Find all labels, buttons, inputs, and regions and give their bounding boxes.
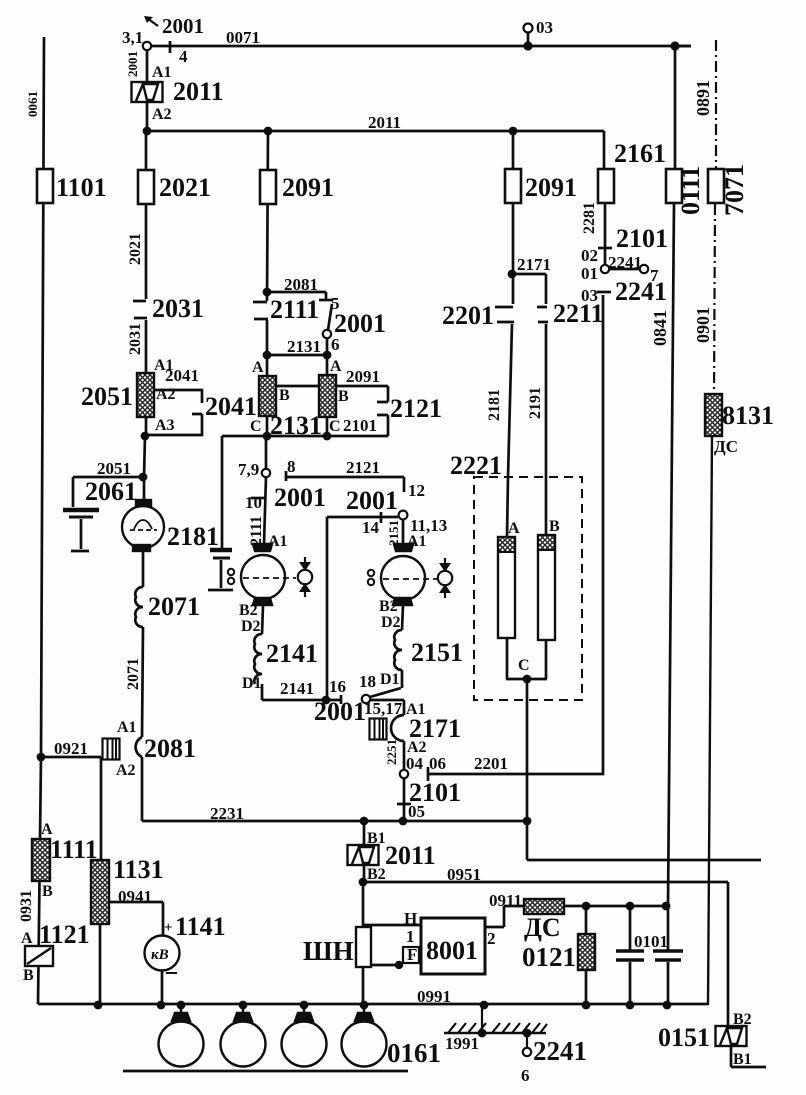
wire net 2201 from 03 down and left to 06 [428,295,603,781]
svg-text:0911: 0911 [489,891,522,910]
svg-text:1101: 1101 [56,173,107,202]
wire 0121 branch [585,906,588,1005]
svg-text:2181: 2181 [486,389,503,421]
svg-text:2251: 2251 [384,739,399,765]
svg-text:6: 6 [521,1066,530,1085]
svg-text:1: 1 [406,927,415,946]
svg-text:A2: A2 [407,739,427,756]
wire D1 to node 16 [262,684,341,700]
svg-text:A: A [252,359,264,376]
svg-text:ДС: ДС [524,913,561,942]
terminal 03 T-bar of 2241 [597,291,611,294]
resistor 0121 [578,934,595,970]
svg-text:A2: A2 [116,762,136,779]
svg-text:5: 5 [331,294,340,313]
svg-text:2081: 2081 [284,275,318,294]
wire 11,13 to motor 2151 A1 [402,519,405,544]
wire 2091 left branch [267,131,268,301]
svg-text:2231: 2231 [210,804,244,823]
svg-text:05: 05 [408,802,425,821]
svg-text:2191: 2191 [527,387,544,419]
contactor 2011 top [132,82,163,102]
svg-text:15,17: 15,17 [364,699,403,718]
svg-text:A1: A1 [117,719,137,736]
svg-text:B: B [338,388,349,405]
svg-text:B: B [549,518,560,535]
capacitor on C net [210,548,232,553]
motor armature 2151 [368,544,437,605]
svg-text:A1: A1 [152,64,172,81]
svg-text:B2: B2 [379,598,398,615]
svg-text:04: 04 [406,754,424,773]
svg-text:2031: 2031 [127,323,144,355]
svg-text:B: B [279,387,290,404]
svg-text:ДС: ДС [714,437,738,456]
svg-text:2111: 2111 [248,516,265,546]
wire 8 - 2121 - 12 [286,471,404,492]
svg-text:2001: 2001 [274,483,326,512]
svg-text:2071: 2071 [148,592,200,621]
fuse 0111 [666,169,682,203]
terminal 5 tick [319,299,333,302]
svg-text:+: + [164,920,173,936]
svg-text:2001: 2001 [314,697,366,726]
svg-text:7,9: 7,9 [238,460,259,479]
svg-text:D1: D1 [380,671,400,688]
wire net 0061 left vertical [38,37,44,1004]
resistor ДС 0911 horizontal [524,899,564,914]
svg-text:8: 8 [287,457,296,476]
svg-text:2101: 2101 [616,224,668,253]
wire net 0071 top horizontal [147,45,691,48]
wire legs of 2221 elements to C [506,638,547,679]
wire ДС below 8131 [708,436,712,1005]
svg-text:6: 6 [331,335,340,354]
svg-text:0921: 0921 [54,739,88,758]
svg-text:2131: 2131 [287,337,321,356]
svg-text:06: 06 [429,754,446,773]
resistor 2131 right element [319,375,336,417]
svg-text:02: 02 [581,246,598,265]
fuse 2021 [138,170,154,204]
svg-text:A2: A2 [156,386,176,403]
wire 2181 to element A [507,324,512,537]
lamp baseline [123,1070,408,1073]
box 8001 [421,918,485,974]
svg-text:0941: 0941 [118,887,152,906]
svg-text:A: A [508,520,520,537]
svg-text:0161: 0161 [387,1038,441,1068]
field winding symbol of 2151 [438,558,452,598]
svg-text:B2: B2 [733,1011,752,1028]
svg-text:A1: A1 [407,533,427,550]
svg-text:B: B [23,967,34,984]
contact 2111 ticks [253,302,268,319]
contact 2121 [377,386,388,436]
resistor 8131 [705,394,722,436]
lamp 1 [180,1005,182,1013]
wire 2051 net to 2061 tap [144,436,145,477]
svg-text:1121: 1121 [39,920,90,949]
arrow at controller 2001 top [147,18,158,26]
svg-text:D1: D1 [242,675,262,692]
wire net 16 vertical [326,517,329,700]
svg-text:C: C [250,418,262,435]
contactor 2011 bottom [348,845,379,865]
svg-text:2221: 2221 [450,451,502,480]
svg-text:2121: 2121 [390,394,442,423]
svg-text:B: B [42,883,53,900]
svg-text:2091: 2091 [525,173,577,202]
svg-text:03: 03 [581,286,598,305]
svg-text:2161: 2161 [614,139,666,168]
lamp 2 [242,1005,244,1013]
svg-text:2011: 2011 [173,77,224,106]
box 2221 dashed outline [474,477,582,700]
svg-text:18: 18 [359,672,376,691]
capacitor 0101 right plates [653,949,683,952]
svg-text:A: A [21,930,33,947]
svg-text:B1: B1 [733,1051,752,1068]
fuse 2091 right [505,169,521,203]
capacitor 2061 [63,508,99,513]
svg-text:2061: 2061 [85,477,137,506]
svg-text:B1: B1 [367,830,386,847]
resistor 1111 [32,839,50,881]
wire net 0911 top cap rail [564,905,668,908]
resistor 2051 [137,373,154,417]
capacitor 0101 left plates [616,949,644,952]
fuse 2161 [598,169,614,203]
wire voltmeter to rail [161,970,164,1005]
wire A2 of 2081 down to rail [141,757,144,821]
wire B1 branch of 2011 [363,821,366,882]
wire ШН branch [362,882,365,1005]
svg-text:2241: 2241 [608,253,642,272]
svg-text:2151: 2151 [386,520,401,546]
switch arm 18 to 15,17 [370,688,401,697]
terminal 14 tick [380,512,383,523]
wire A3 below 2051 [145,417,148,436]
svg-text:A2: A2 [152,106,172,123]
wire motor2 B2-D2 [402,605,403,630]
wire 7,9 switch to motor 2141 A1 [264,436,266,544]
wire A1 to motor 2181 [143,477,146,500]
wire bottom rail 0991 [38,1003,708,1006]
wire net 0941 [109,902,163,935]
svg-text:2011: 2011 [368,113,401,132]
wire net 2081 to switch 5 [267,292,326,300]
wire A tap right resistor [326,355,329,375]
svg-text:A: A [41,821,53,838]
svg-text:0121: 0121 [522,942,576,972]
wire output 2 of 8001 to ДС [485,906,524,927]
svg-text:03: 03 [536,18,553,37]
contact 2201 ticks [495,307,514,322]
inductor 2151 [394,630,402,670]
svg-text:12: 12 [408,481,425,500]
wire net 0951 to 0151 [363,882,728,1027]
svg-text:2001: 2001 [334,309,386,338]
svg-text:A: A [330,358,342,375]
wire net 0841 vertical [668,46,675,1005]
resistor 1131 [91,860,109,924]
svg-text:2021: 2021 [159,173,211,202]
svg-text:2241: 2241 [533,1036,587,1066]
svg-text:2121: 2121 [346,458,380,477]
motor armature 2141 [228,544,296,605]
svg-text:Н: Н [404,909,417,928]
wire net 0891 dash-dot top [715,40,717,168]
contactor 0151 [716,1026,747,1046]
wire 15,17 to contact 2171 [370,700,404,715]
svg-text:1991: 1991 [445,1034,479,1053]
svg-text:7: 7 [650,266,659,285]
wire 2161 branch drop [603,131,606,169]
wire 2111 below contact [266,320,269,355]
wire 2191 to element B [545,324,548,535]
contact 2041 bypass [146,390,202,435]
inductor 2141 [254,634,262,684]
svg-text:C: C [518,657,530,674]
svg-text:10: 10 [245,493,262,512]
svg-text:2081: 2081 [144,734,196,763]
voltmeter 1141 [145,936,180,971]
svg-text:0951: 0951 [447,865,481,884]
contact 2171 arc [391,715,404,741]
svg-text:2001: 2001 [346,486,398,515]
motor 2181 [122,500,164,551]
wire 2091 right branch [512,131,515,304]
terminal F box [403,947,419,963]
svg-text:2201: 2201 [474,754,508,773]
svg-text:01: 01 [581,264,598,283]
svg-text:2: 2 [487,929,496,948]
lamp 4 [363,1005,365,1013]
wire motor 2181 to coil 2071 [142,551,145,587]
wire net 2091 B taps [276,385,388,388]
contact 2031 ticks [133,301,147,318]
wire 1131 to rail [99,924,102,1005]
wire C of 2221 down and right [527,679,761,860]
svg-text:A1: A1 [406,701,426,718]
svg-text:2041: 2041 [205,392,257,421]
svg-text:2201: 2201 [442,301,494,330]
switch arm 2001 (5-6) [328,304,332,330]
contact 2081 arc [136,737,142,757]
wire C net drop to capacitor [221,436,224,548]
wire 2281 below fuse 2161 [604,204,607,265]
svg-text:4: 4 [179,47,188,66]
svg-text:2281: 2281 [581,202,598,234]
svg-text:8131: 8131 [722,401,774,430]
svg-text:B2: B2 [367,866,386,883]
wire net 2171 to contact 2211 [512,274,546,304]
terminal 03 stub [527,33,530,46]
svg-text:2181: 2181 [167,522,219,551]
svg-text:1141: 1141 [175,912,226,941]
wire C net horizontal [222,435,388,438]
svg-text:2141: 2141 [266,639,318,668]
terminal 16 tick [340,695,343,704]
wire 14 line [327,516,398,519]
element A of 2221 [498,537,515,638]
fuse 2091 left [260,170,276,204]
svg-text:2021: 2021 [127,233,144,265]
svg-text:1111: 1111 [50,835,98,864]
wire D1 of 2151 [401,670,404,688]
svg-text:D2: D2 [241,618,261,635]
svg-text:B2: B2 [239,602,258,619]
svg-text:A1: A1 [268,533,288,550]
wire H input of 8001 [363,924,421,927]
wire terminal 01 to 7 [609,268,640,271]
svg-text:8001: 8001 [426,936,478,965]
wire net 2131 horizontal [267,354,327,357]
svg-text:2001: 2001 [162,14,204,38]
field winding symbol of 2141 [298,557,312,597]
svg-text:F: F [407,945,417,964]
wire A tap left resistor [266,355,269,376]
svg-text:2091: 2091 [346,367,380,386]
wire 2031 to resistor 2051 [145,320,148,373]
svg-text:0891: 0891 [693,80,713,116]
open switch circles [143,24,648,1057]
wire C below left resistor [266,416,269,436]
wire net 0901 dash-dot [714,204,715,394]
relay 1121 [25,946,53,966]
svg-text:D2: D2 [381,614,401,631]
wire 04-05 plug 2101 [397,778,411,821]
svg-text:3,1: 3,1 [122,28,143,47]
svg-text:2011: 2011 [385,841,436,870]
wire net 2231 rail [142,820,527,823]
wire 2061 branch [73,477,144,507]
fuse 1101 [37,169,53,203]
svg-text:0061: 0061 [25,91,40,117]
inductor 2071 [135,587,143,627]
resistor 2131 left element [259,376,276,416]
svg-text:2131: 2131 [270,411,322,440]
lamp 3 [303,1005,305,1013]
svg-text:7071: 7071 [720,164,749,216]
wire net 2011 horizontal [147,130,604,133]
wire A2 of 2171 to 04 [403,741,406,770]
wire C below right resistor [326,417,329,436]
svg-text:0991: 0991 [417,987,451,1006]
wire net 0921 [41,757,101,860]
rotated net labels [18,51,713,922]
svg-text:0071: 0071 [226,28,260,47]
svg-text:кВ: кВ [151,947,169,963]
valve of contact 2171 [370,719,387,740]
svg-text:14: 14 [362,518,380,537]
svg-text:0841: 0841 [650,310,670,346]
svg-text:0931: 0931 [18,890,35,922]
svg-text:0901: 0901 [693,307,713,343]
svg-text:2111: 2111 [270,295,319,324]
contact 2211 ticks [537,307,548,322]
wire F input of 8001 [363,963,403,965]
svg-text:16: 16 [329,677,346,696]
svg-text:A1: A1 [154,357,174,374]
svg-text:2031: 2031 [152,294,204,323]
terminal 10 tick [251,497,265,500]
wire 6 to node 2131 [326,338,329,355]
wire 2071 to contact 2081 [142,627,143,737]
svg-text:1131: 1131 [113,855,164,884]
wire 2001 drop to contactor 2011 [146,50,149,131]
wire motor1 B2-D2 [262,605,263,634]
svg-text:2051: 2051 [81,382,133,411]
svg-text:A3: A3 [155,417,175,434]
svg-text:2001: 2001 [125,51,140,77]
svg-text:C: C [329,418,341,435]
valve of contact 2081 [103,739,120,760]
capacitor 0101 left leg [629,906,632,1005]
element B of 2221 [538,535,555,640]
svg-text:0151: 0151 [658,1023,710,1052]
svg-text:2171: 2171 [517,255,551,274]
svg-text:2241: 2241 [615,277,667,306]
svg-text:2091: 2091 [282,173,334,202]
svg-text:2071: 2071 [125,658,142,690]
svg-text:2141: 2141 [280,679,314,698]
svg-text:ШН: ШН [303,936,354,966]
svg-text:2051: 2051 [97,459,131,478]
fuse 7071 [708,169,724,203]
ground 1991 hatched [444,1005,547,1048]
shunt ШН [356,927,371,967]
terminal 4 tick [169,41,172,53]
wire below 0151 [731,1046,766,1067]
lamp group 0161 [123,1005,408,1071]
stub right of 0071 [675,45,691,48]
svg-text:2101: 2101 [343,416,377,435]
terminal 02 tick [598,247,612,250]
wire 2021 branch [145,131,148,299]
svg-text:0101: 0101 [634,932,668,951]
svg-text:0111: 0111 [676,166,705,215]
svg-text:2151: 2151 [411,638,463,667]
